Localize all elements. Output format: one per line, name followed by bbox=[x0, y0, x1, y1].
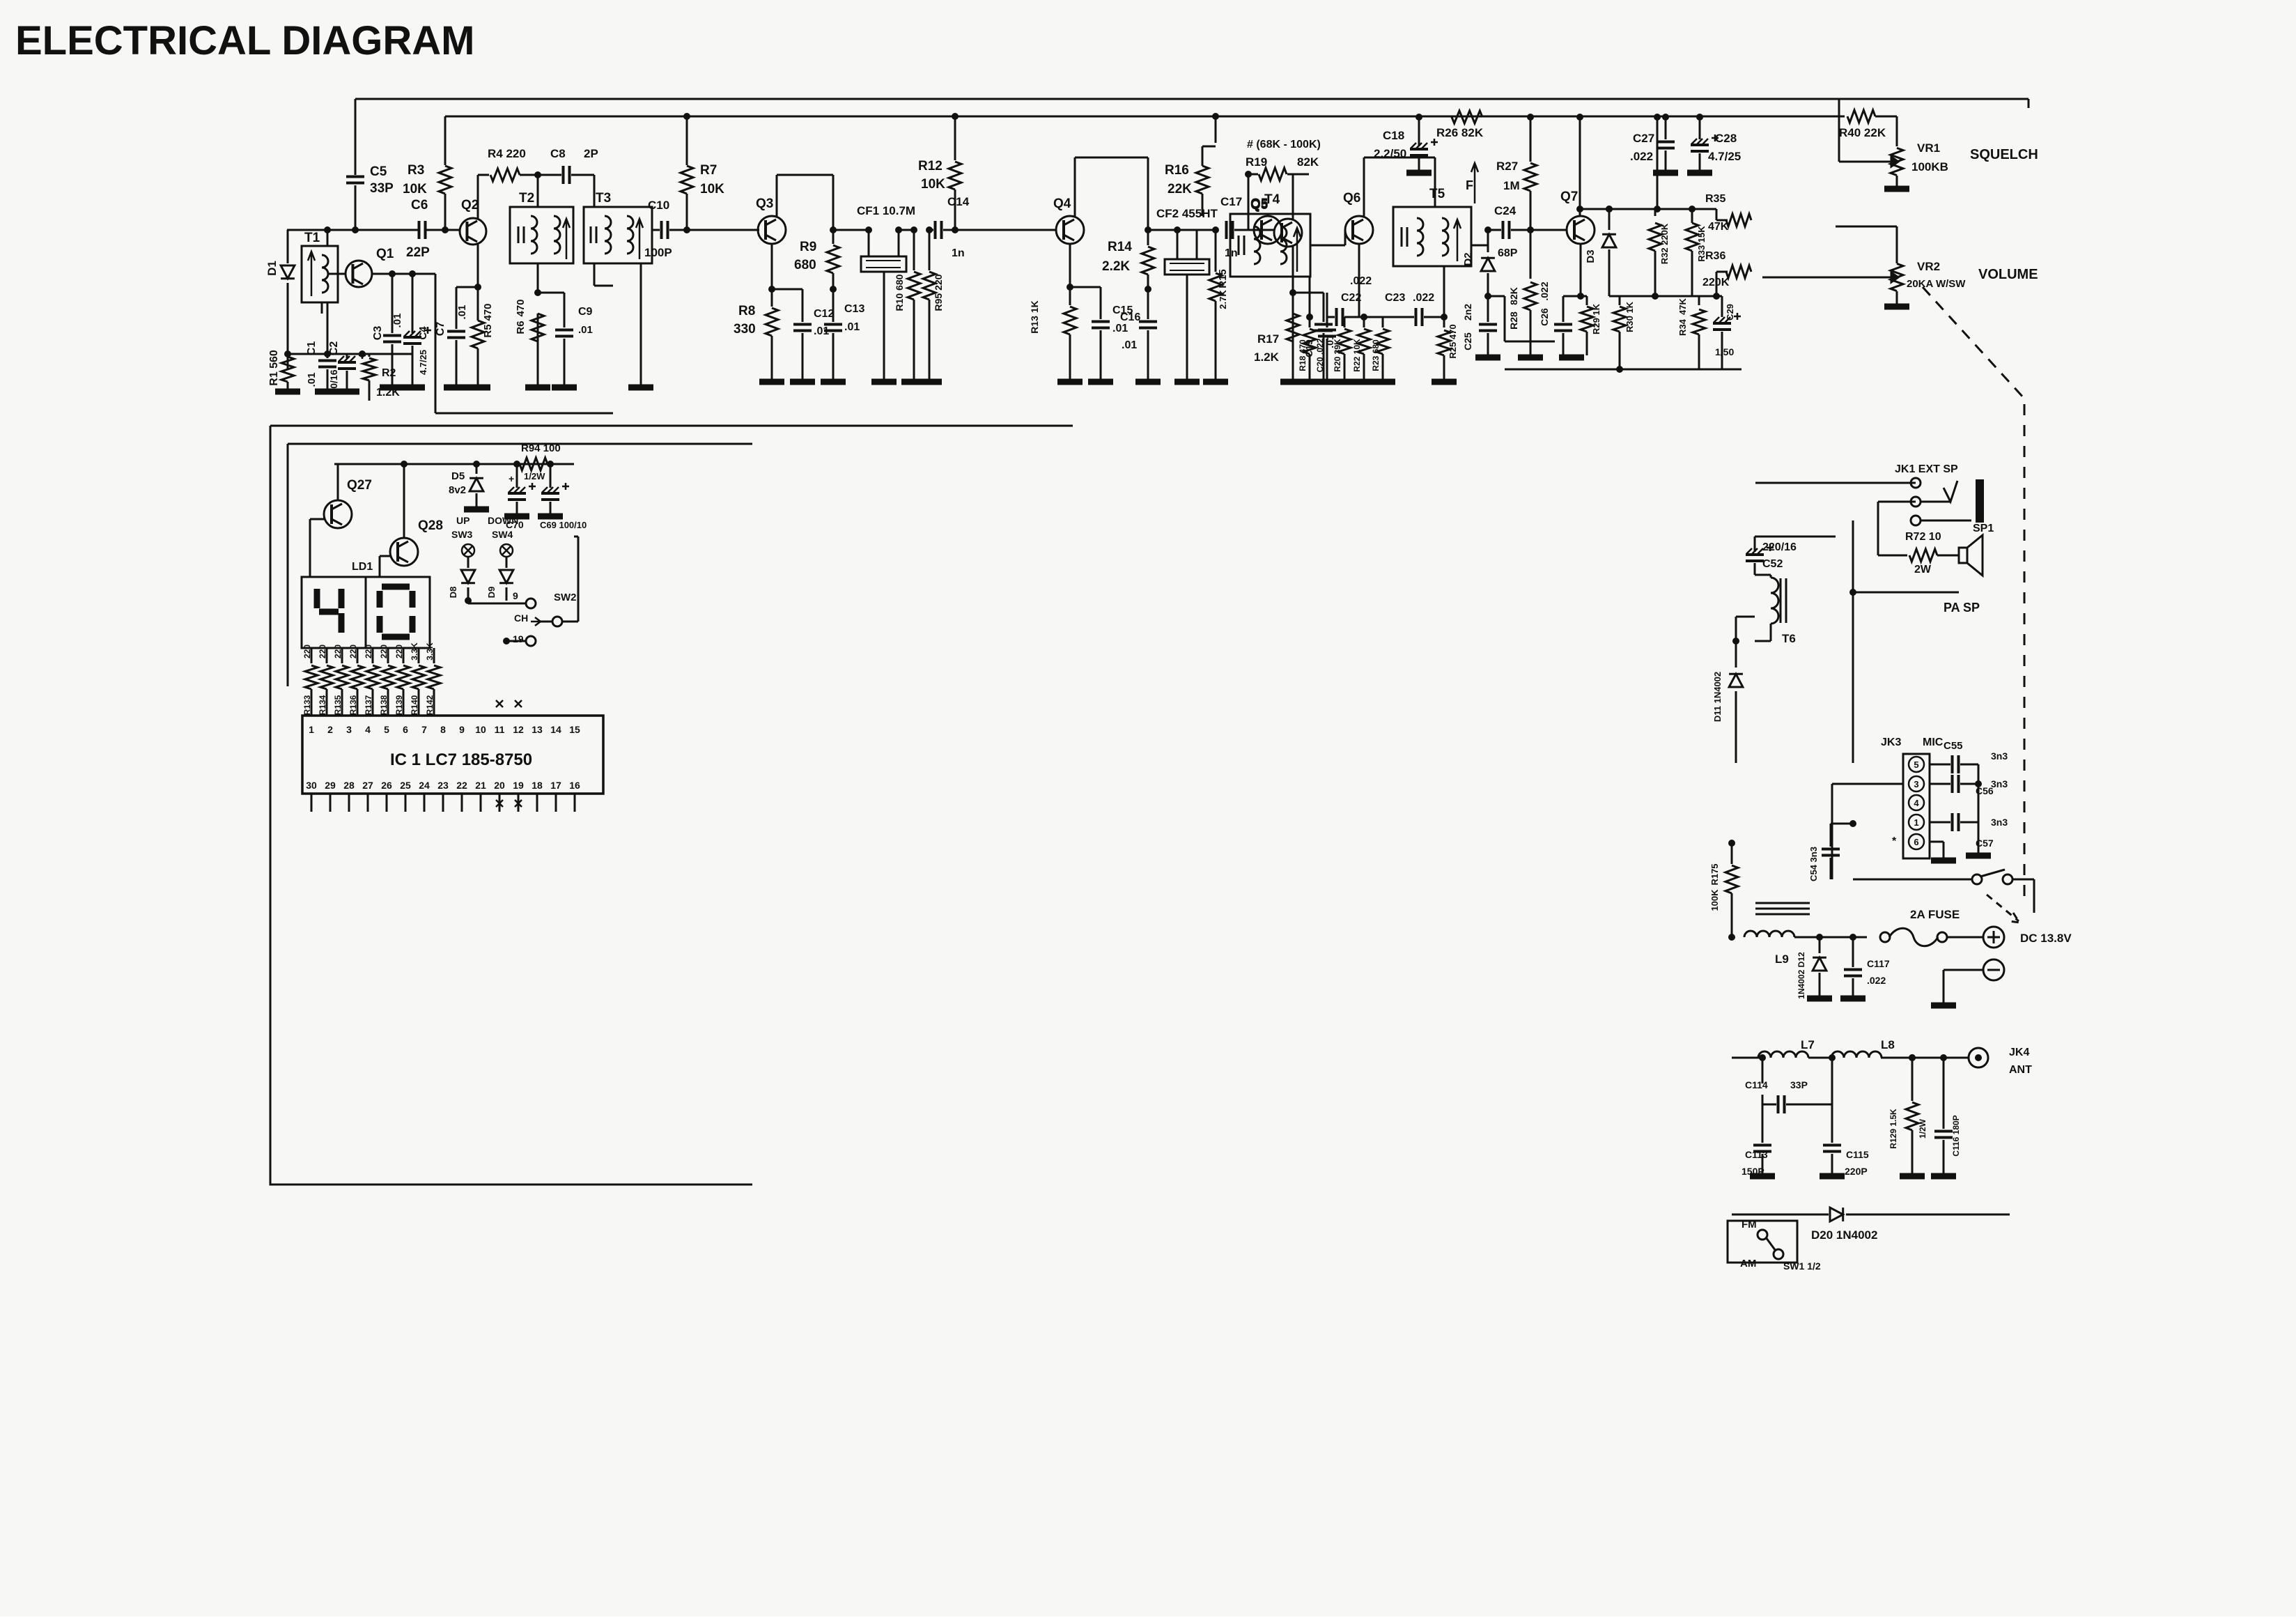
svg-text:R175: R175 bbox=[1709, 863, 1720, 885]
capacitor C70 100/10 elco bbox=[513, 461, 520, 468]
svg-text:1.2K: 1.2K bbox=[1254, 350, 1280, 364]
svg-text:3n3: 3n3 bbox=[1991, 750, 2008, 762]
svg-text:D2: D2 bbox=[1462, 252, 1474, 265]
node A2 bbox=[284, 350, 291, 357]
svg-text:T2: T2 bbox=[519, 191, 534, 206]
X marks bbox=[496, 700, 522, 707]
svg-text:.01: .01 bbox=[578, 324, 593, 336]
capacitor C24 68P bbox=[1503, 221, 1510, 239]
wire Q5 collector to T4 bbox=[1292, 174, 1294, 219]
svg-text:JK4: JK4 bbox=[2009, 1047, 2029, 1058]
ground G19 bbox=[1135, 379, 1161, 385]
resistor R5 470 bbox=[477, 287, 479, 321]
svg-text:C10: C10 bbox=[648, 199, 669, 212]
svg-text:CF2 455HT: CF2 455HT bbox=[1156, 207, 1218, 220]
svg-text:2P: 2P bbox=[584, 147, 598, 160]
svg-text:C13: C13 bbox=[844, 303, 864, 315]
svg-text:D11 1N4002: D11 1N4002 bbox=[1712, 672, 1723, 722]
resistor R15 2.7K bbox=[1215, 230, 1217, 272]
svg-text:29: 29 bbox=[325, 780, 336, 791]
resistor R28 82K bbox=[1530, 230, 1532, 279]
svg-text:SW3: SW3 bbox=[451, 529, 473, 540]
svg-text:ANT: ANT bbox=[2009, 1064, 2032, 1076]
bottom rail 1 bbox=[1505, 369, 1742, 371]
svg-text:C7: C7 bbox=[435, 322, 447, 337]
svg-text:R142: R142 bbox=[425, 695, 435, 715]
resistor R26 82K on bus bbox=[1415, 114, 1422, 121]
svg-text:CF1 10.7M: CF1 10.7M bbox=[857, 204, 915, 217]
svg-text:.022: .022 bbox=[1867, 975, 1886, 986]
svg-text:2A FUSE: 2A FUSE bbox=[1910, 908, 1960, 921]
wire to Q4 base bbox=[955, 229, 1056, 231]
svg-text:47K: 47K bbox=[1677, 298, 1688, 314]
svg-text:C116 180P: C116 180P bbox=[1951, 1115, 1961, 1156]
resistor R1 560 bbox=[287, 354, 289, 369]
svg-text:.01: .01 bbox=[306, 373, 318, 387]
svg-text:C113: C113 bbox=[1745, 1149, 1768, 1160]
ground G10 bbox=[628, 385, 653, 391]
svg-text:C20 .022: C20 .022 bbox=[1315, 338, 1325, 372]
svg-text:T1: T1 bbox=[304, 231, 320, 245]
resistor R129 1.5K 1/2W bbox=[1909, 1054, 1916, 1061]
svg-text:L9: L9 bbox=[1775, 952, 1789, 966]
capacitor C4 electrolytic bbox=[412, 274, 414, 333]
svg-text:L8: L8 bbox=[1881, 1038, 1895, 1051]
resistor R175 100K bbox=[1728, 840, 1735, 847]
svg-text:.01: .01 bbox=[456, 305, 468, 320]
svg-text:.01: .01 bbox=[391, 314, 403, 328]
svg-text:Q6: Q6 bbox=[1343, 191, 1360, 206]
ground G28 bbox=[1653, 170, 1678, 176]
svg-text:R133: R133 bbox=[302, 695, 312, 715]
svg-text:Q3: Q3 bbox=[756, 196, 773, 211]
svg-text:220: 220 bbox=[333, 645, 343, 658]
svg-text:8: 8 bbox=[440, 724, 446, 735]
svg-text:C12: C12 bbox=[814, 308, 834, 320]
wire RF input rail bbox=[287, 229, 418, 231]
wire T2 bottom to R6 bbox=[537, 263, 539, 293]
ground G3 bbox=[334, 389, 359, 395]
ground G17 bbox=[1057, 379, 1083, 385]
svg-text:R140: R140 bbox=[410, 695, 419, 715]
resistor R30 1K bbox=[1609, 295, 1620, 298]
svg-text:R20 39K: R20 39K bbox=[1333, 339, 1342, 372]
svg-text:C5: C5 bbox=[370, 164, 387, 179]
svg-text:4.7/25: 4.7/25 bbox=[1708, 150, 1741, 163]
wire VR2 wiper feed bbox=[1762, 277, 1879, 279]
wire T1 to Q1 bbox=[327, 230, 329, 246]
wire R33 top to bus vertical bbox=[1657, 208, 1692, 210]
resistor R32 220K bbox=[1654, 209, 1657, 216]
diode D1 bbox=[287, 230, 289, 263]
svg-text:# (68K - 100K): # (68K - 100K) bbox=[1247, 139, 1321, 151]
svg-text:20: 20 bbox=[494, 780, 505, 791]
wire bottom node rail bbox=[288, 353, 412, 355]
svg-text:SW2: SW2 bbox=[554, 592, 577, 603]
svg-text:1n: 1n bbox=[952, 247, 965, 259]
svg-text:.01: .01 bbox=[844, 321, 860, 333]
svg-text:R22 10K: R22 10K bbox=[1352, 339, 1362, 372]
svg-text:R19: R19 bbox=[1246, 155, 1267, 169]
svg-text:21: 21 bbox=[475, 780, 486, 791]
svg-text:R6: R6 bbox=[515, 321, 527, 334]
ground G16 bbox=[917, 379, 942, 385]
ground G34 bbox=[1750, 1173, 1775, 1180]
zener D5 8v2 bbox=[473, 461, 480, 468]
wire to VR2 bbox=[1836, 226, 1897, 228]
resistor bank R133-R142 bbox=[311, 648, 313, 663]
antenna filter L7 L8 bbox=[1732, 1057, 1762, 1059]
resistor R3 10K vertical bbox=[444, 116, 447, 165]
diode D8 bbox=[467, 557, 470, 568]
svg-text:MIC: MIC bbox=[1923, 736, 1944, 748]
svg-text:.022: .022 bbox=[1539, 281, 1550, 300]
svg-text:10K: 10K bbox=[700, 182, 724, 196]
svg-text:ELECTRICAL DIAGRAM: ELECTRICAL DIAGRAM bbox=[15, 18, 474, 63]
capacitor C69 elco bbox=[547, 461, 554, 468]
svg-text:2.7K: 2.7K bbox=[1218, 290, 1228, 309]
wire top D3/R32 node bbox=[1580, 208, 1657, 210]
svg-text:2W: 2W bbox=[1914, 564, 1932, 576]
svg-text:30: 30 bbox=[306, 780, 317, 791]
svg-text:R30 1K: R30 1K bbox=[1624, 301, 1635, 332]
capacitor C9 bbox=[538, 292, 564, 294]
svg-text:1/50: 1/50 bbox=[1715, 346, 1734, 357]
ground G2 bbox=[315, 389, 340, 395]
svg-text:1/2W: 1/2W bbox=[524, 471, 545, 481]
svg-text:2.2/50: 2.2/50 bbox=[1374, 147, 1406, 160]
svg-text:R28: R28 bbox=[1508, 311, 1519, 330]
capacitor C13 bbox=[832, 289, 835, 322]
svg-text:3n3: 3n3 bbox=[1991, 817, 2008, 828]
svg-text:D8: D8 bbox=[448, 587, 458, 599]
ground G4 bbox=[380, 385, 405, 391]
svg-text:14: 14 bbox=[550, 724, 561, 735]
svg-text:220: 220 bbox=[394, 645, 404, 658]
svg-text:C2: C2 bbox=[328, 341, 340, 356]
capacitor C18 2.2/50 bbox=[1418, 117, 1420, 146]
svg-text:6: 6 bbox=[1914, 837, 1918, 847]
wire jack to R72 bbox=[1878, 501, 1916, 503]
svg-text:DOWN: DOWN bbox=[488, 515, 518, 526]
ground G9 bbox=[552, 385, 577, 391]
svg-text:28: 28 bbox=[343, 780, 355, 791]
svg-text:C117: C117 bbox=[1867, 958, 1890, 969]
svg-text:Q27: Q27 bbox=[347, 478, 372, 493]
svg-text:24: 24 bbox=[419, 780, 430, 791]
svg-text:R32 220K: R32 220K bbox=[1659, 223, 1670, 264]
svg-text:3: 3 bbox=[1914, 779, 1918, 789]
inductor L9 bbox=[1731, 913, 1733, 937]
diode D9 bbox=[506, 557, 508, 568]
svg-text:D1: D1 bbox=[265, 261, 279, 276]
svg-text:C1: C1 bbox=[306, 341, 318, 356]
resistor R33 15K bbox=[1655, 295, 1692, 298]
diode D12 1N4002 bbox=[1816, 934, 1823, 941]
svg-text:C25: C25 bbox=[1462, 332, 1473, 350]
svg-text:C9: C9 bbox=[578, 306, 593, 318]
resistor R8 330 bbox=[771, 289, 773, 307]
capacitor C10 100P bbox=[652, 229, 660, 231]
svg-text:IC 1 LC7 185-8750: IC 1 LC7 185-8750 bbox=[390, 750, 532, 769]
svg-text:CH: CH bbox=[514, 612, 528, 624]
svg-text:Q1: Q1 bbox=[376, 247, 394, 261]
svg-text:C115: C115 bbox=[1846, 1149, 1869, 1160]
svg-text:R26 82K: R26 82K bbox=[1436, 126, 1484, 139]
svg-text:11: 11 bbox=[495, 724, 505, 735]
svg-text:100K: 100K bbox=[1709, 889, 1720, 911]
wire T4 bottom bbox=[1309, 277, 1311, 317]
resistor R2 1.2K bbox=[369, 354, 371, 357]
svg-text:R15: R15 bbox=[1217, 269, 1229, 288]
capacitor C5 bbox=[346, 177, 364, 183]
svg-text:.022: .022 bbox=[1630, 150, 1653, 163]
capacitor C115 220P bbox=[1823, 1145, 1841, 1152]
ground G21 bbox=[1203, 379, 1228, 385]
capacitor C19 bbox=[1293, 292, 1324, 294]
svg-text:T6: T6 bbox=[1782, 632, 1796, 645]
svg-text:47K: 47K bbox=[1708, 221, 1729, 233]
svg-text:100P: 100P bbox=[644, 246, 672, 259]
IC1 bottom pin wires bbox=[311, 794, 313, 812]
resistor R12 10K vertical bbox=[952, 113, 959, 120]
capacitor C117 .022 bbox=[1849, 934, 1856, 941]
capacitor C113 150P bbox=[1762, 1104, 1764, 1143]
wire power switch bbox=[1972, 874, 1982, 884]
svg-text:470: 470 bbox=[482, 303, 494, 321]
dashed switch line bbox=[1923, 287, 2024, 399]
wire mic gnd bbox=[1978, 836, 1980, 854]
svg-text:C18: C18 bbox=[1383, 129, 1404, 142]
svg-text:25: 25 bbox=[400, 780, 411, 791]
ground G23 bbox=[1311, 379, 1336, 385]
wire CF1 out bbox=[899, 229, 914, 231]
svg-text:R13 1K: R13 1K bbox=[1029, 300, 1040, 333]
wire Q1 emitter to bottom rail bbox=[412, 273, 435, 275]
resistor R25 470 bbox=[1443, 317, 1445, 327]
transistor Q3 bbox=[758, 216, 786, 244]
svg-text:C28: C28 bbox=[1715, 132, 1737, 145]
svg-text:SP1: SP1 bbox=[1973, 523, 1994, 534]
wire Q6 collector loop bbox=[1363, 157, 1365, 217]
wire Q6 emitter bbox=[1358, 244, 1360, 317]
svg-text:R17: R17 bbox=[1257, 332, 1279, 346]
ground G13 bbox=[821, 379, 846, 385]
wire Q4 emitter bbox=[1069, 244, 1071, 287]
transistor Q1 bbox=[346, 261, 372, 287]
svg-text:R14: R14 bbox=[1108, 240, 1132, 254]
svg-text:10K: 10K bbox=[921, 177, 945, 192]
svg-text:22: 22 bbox=[456, 780, 467, 791]
capacitor C29 elco bbox=[1716, 295, 1722, 298]
ground G32 bbox=[1884, 304, 1909, 310]
capacitor C55 3n3 bbox=[1930, 764, 1950, 766]
resistor R34 47K bbox=[1698, 296, 1700, 305]
svg-text:10: 10 bbox=[475, 724, 486, 735]
resistor R29 1K bbox=[1581, 295, 1587, 298]
wire T6 primary left bbox=[1735, 617, 1737, 641]
ground G22 bbox=[1280, 379, 1305, 385]
wire T3 bottom stubs bbox=[594, 263, 596, 286]
svg-text:Q2: Q2 bbox=[461, 198, 479, 213]
svg-text:R36: R36 bbox=[1705, 250, 1725, 262]
capacitor C25 2n2 bbox=[1487, 296, 1489, 322]
svg-text:R1 560: R1 560 bbox=[268, 350, 280, 386]
svg-text:68P: 68P bbox=[1498, 247, 1518, 259]
wire CF2 out / R15 bbox=[1197, 229, 1216, 231]
svg-text:+: + bbox=[509, 473, 514, 484]
transformer T6 bbox=[1771, 578, 1778, 624]
capacitor C27 .022 bbox=[1662, 114, 1669, 121]
jack JK4 ANT bbox=[1969, 1048, 1988, 1067]
svg-text:23: 23 bbox=[437, 780, 449, 791]
wire R94 rail bbox=[334, 463, 574, 465]
svg-text:20KA W/SW: 20KA W/SW bbox=[1907, 278, 1966, 290]
resistor R16 22K vertical bbox=[1212, 113, 1219, 120]
svg-text:.022: .022 bbox=[1350, 275, 1372, 287]
ground G11 bbox=[759, 379, 784, 385]
svg-text:DC 13.8V: DC 13.8V bbox=[2020, 932, 2072, 945]
wire T2 top feed bbox=[537, 175, 539, 207]
svg-text:1/2W: 1/2W bbox=[1918, 1118, 1927, 1139]
wire Q7 collector up bbox=[1576, 114, 1583, 121]
svg-text:R8: R8 bbox=[738, 304, 755, 318]
svg-text:15: 15 bbox=[569, 724, 580, 735]
svg-text:C4: C4 bbox=[417, 326, 429, 340]
svg-text:2n2: 2n2 bbox=[1462, 304, 1473, 321]
transistor Q6 bbox=[1345, 216, 1373, 244]
capacitor C56 bbox=[1930, 783, 1950, 785]
capacitor C2 electrolytic bbox=[346, 354, 348, 358]
ground G14 bbox=[871, 379, 897, 385]
transistor Q7 bbox=[1567, 216, 1595, 244]
wire top bus A bbox=[355, 98, 2029, 100]
svg-text:C52: C52 bbox=[1762, 558, 1783, 570]
wire T4 out to Q6 bbox=[1310, 245, 1345, 247]
svg-text:6: 6 bbox=[403, 724, 408, 735]
capacitor C28 4.7/25 elco bbox=[1696, 114, 1703, 121]
wire T5 out to C24 bbox=[1471, 245, 1488, 247]
potentiometer VR2 VOLUME bbox=[1891, 263, 1903, 291]
svg-text:330: 330 bbox=[734, 322, 756, 337]
svg-text:VOLUME: VOLUME bbox=[1978, 267, 2038, 282]
svg-text:R25 470: R25 470 bbox=[1448, 324, 1458, 358]
svg-text:.022: .022 bbox=[1413, 292, 1434, 304]
svg-text:R138: R138 bbox=[379, 695, 389, 715]
svg-text:T5: T5 bbox=[1429, 187, 1445, 201]
ground G26 bbox=[1406, 170, 1432, 176]
IC1 LC7185-8750 box bbox=[302, 716, 603, 794]
diode D11 1N4002 bbox=[1735, 641, 1737, 668]
svg-text:PA SP: PA SP bbox=[1944, 601, 1980, 615]
svg-text:33P: 33P bbox=[1790, 1079, 1808, 1090]
svg-text:1M: 1M bbox=[1503, 179, 1520, 192]
wire Q27 base bbox=[310, 518, 324, 520]
svg-text:JK3: JK3 bbox=[1881, 736, 1901, 748]
svg-text:220: 220 bbox=[379, 645, 389, 658]
ground G20 bbox=[1174, 379, 1200, 385]
svg-text:UP: UP bbox=[456, 515, 470, 526]
DC minus terminal bbox=[1983, 959, 2004, 980]
resistor R13 1K bbox=[1069, 287, 1071, 305]
ground G5 bbox=[400, 385, 425, 391]
svg-text:19: 19 bbox=[513, 780, 524, 791]
svg-text:R18 470: R18 470 bbox=[1298, 339, 1308, 371]
svg-text:2: 2 bbox=[327, 724, 333, 735]
svg-text:3: 3 bbox=[346, 724, 352, 735]
svg-text:82K: 82K bbox=[1508, 287, 1519, 305]
wire Q4 collector loop bbox=[1074, 157, 1076, 217]
capacitor C54 3n3 bbox=[1831, 823, 1853, 825]
resistor R40 22K bbox=[1783, 116, 1845, 118]
svg-text:D9: D9 bbox=[486, 587, 497, 599]
svg-text:VR2: VR2 bbox=[1917, 260, 1940, 273]
svg-text:100KB: 100KB bbox=[1911, 160, 1948, 173]
wire T5 bottom bbox=[1443, 266, 1445, 317]
capacitor C1 bbox=[327, 354, 329, 358]
svg-text:3.3K: 3.3K bbox=[425, 642, 435, 661]
wire Q1 emitter rail bbox=[371, 273, 412, 275]
svg-text:R10 680: R10 680 bbox=[894, 274, 905, 311]
svg-text:JK1 EXT SP: JK1 EXT SP bbox=[1895, 463, 1958, 475]
capacitor C57 bbox=[1930, 821, 1950, 824]
svg-text:220: 220 bbox=[302, 645, 312, 658]
diode D3 bbox=[1606, 206, 1613, 213]
svg-text:VR1: VR1 bbox=[1917, 141, 1940, 155]
svg-text:R136: R136 bbox=[348, 695, 358, 715]
resistor R9 680 bbox=[832, 230, 835, 244]
resistor R95 220 bbox=[929, 230, 931, 270]
resistor cluster R18/C20/R20/R22/R23 bbox=[1326, 293, 1328, 317]
ground G30 bbox=[1432, 379, 1457, 385]
transistor Q27 bbox=[324, 500, 352, 528]
node A1 bbox=[324, 226, 331, 233]
capacitor C17 1n bbox=[1227, 221, 1233, 239]
svg-text:1: 1 bbox=[309, 724, 314, 735]
wire Q5 emitter chain bbox=[1274, 219, 1302, 247]
svg-text:C17: C17 bbox=[1220, 195, 1242, 208]
svg-text:2.2K: 2.2K bbox=[1102, 259, 1130, 274]
svg-text:R2: R2 bbox=[382, 367, 396, 379]
svg-text:4: 4 bbox=[365, 724, 371, 735]
svg-text:SQUELCH: SQUELCH bbox=[1970, 147, 2038, 162]
svg-text:9: 9 bbox=[459, 724, 465, 735]
svg-text:C3: C3 bbox=[372, 326, 384, 341]
capacitor C114 33P bbox=[1762, 1058, 1764, 1083]
svg-text:C14: C14 bbox=[947, 195, 970, 208]
capacitor C7 bbox=[456, 286, 478, 288]
svg-text:C8: C8 bbox=[550, 147, 566, 160]
svg-text:7: 7 bbox=[421, 724, 427, 735]
svg-text:82K: 82K bbox=[1297, 155, 1319, 169]
svg-text:SW4: SW4 bbox=[492, 529, 513, 540]
transistor Q4 bbox=[1056, 216, 1084, 244]
capacitor C16 bbox=[1147, 289, 1149, 319]
svg-text:680: 680 bbox=[794, 258, 816, 272]
wire VR1 wiper bbox=[1839, 161, 1879, 163]
svg-text:18: 18 bbox=[532, 780, 543, 791]
svg-text:220: 220 bbox=[364, 645, 373, 658]
svg-text:R27: R27 bbox=[1496, 160, 1518, 173]
svg-text:AM: AM bbox=[1740, 1258, 1756, 1270]
wire to Q5 base bbox=[1234, 229, 1254, 231]
wire Q3 emitter bbox=[771, 244, 773, 289]
svg-text:220K: 220K bbox=[1702, 277, 1730, 288]
vertical right feed x2635 bbox=[2028, 99, 2030, 108]
svg-text:R129 1.5K: R129 1.5K bbox=[1888, 1109, 1898, 1149]
svg-text:R137: R137 bbox=[364, 695, 373, 715]
svg-text:19: 19 bbox=[513, 633, 524, 645]
